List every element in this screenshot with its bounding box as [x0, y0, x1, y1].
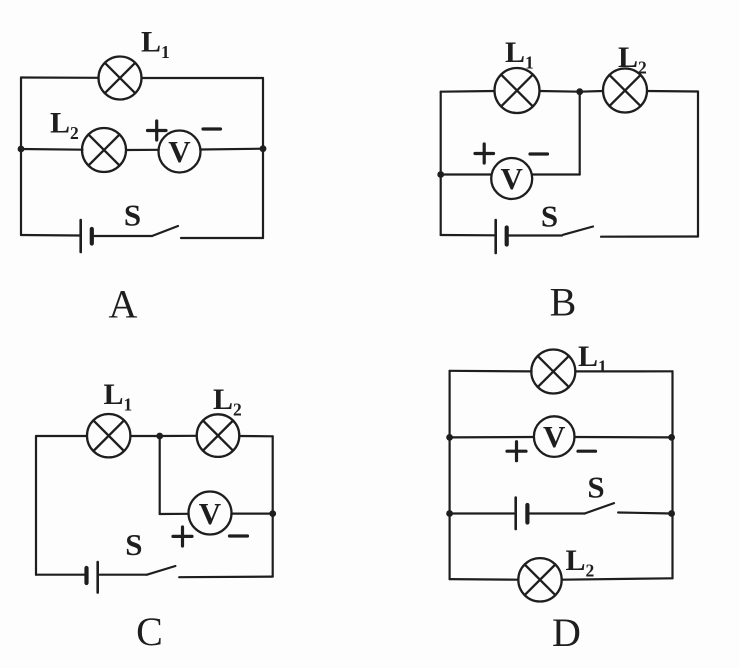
- svg-text:A: A: [109, 282, 138, 327]
- wire C between L1 and node: [130, 435, 159, 437]
- wire C bottom-left segment: [36, 574, 84, 576]
- node A-right junction dot: [260, 145, 267, 152]
- wire C battery-to-switch segment: [100, 574, 147, 576]
- svg-text:S: S: [587, 470, 604, 505]
- lamp L1 (circuit B): [495, 68, 540, 113]
- label plus (circuit C): [173, 527, 192, 546]
- label minus (circuit B): [530, 152, 548, 155]
- svg-text:V: V: [543, 419, 566, 454]
- voltmeter V (circuit D): [534, 416, 575, 457]
- wire A between L2 and voltmeter: [126, 149, 159, 151]
- node D battery-right dot: [668, 510, 675, 517]
- wire A bottom-left segment: [21, 234, 79, 237]
- node D voltmeter-right dot: [668, 434, 675, 441]
- svg-text:L2: L2: [618, 41, 647, 78]
- wire B battery-to-switch segment: [509, 234, 562, 236]
- wire B top-left segment: [441, 90, 495, 93]
- wire C top-right segment: [239, 435, 272, 437]
- wire C bottom-right segment: [179, 575, 273, 578]
- wire B top-right segment: [647, 90, 698, 93]
- wire C left vertical: [35, 436, 37, 575]
- label minus (circuit C): [230, 534, 248, 537]
- wire D top-right segment: [576, 370, 673, 372]
- svg-text:D: D: [552, 610, 581, 655]
- label minus (circuit D): [578, 450, 596, 453]
- wire B voltmeter branch vertical: [579, 92, 581, 175]
- wire C top-left segment: [36, 435, 87, 437]
- wire A top-left segment: [21, 76, 99, 79]
- voltmeter V (circuit C): [189, 492, 232, 535]
- wire A bottom-right segment: [181, 237, 263, 239]
- wire B between node and L2: [580, 90, 603, 93]
- svg-text:L1: L1: [505, 36, 534, 73]
- lamp L2 (circuit B): [603, 69, 647, 113]
- svg-text:V: V: [168, 134, 191, 169]
- svg-text:V: V: [501, 161, 524, 196]
- svg-text:S: S: [124, 198, 141, 233]
- wire A top-right segment: [142, 77, 264, 79]
- switch S blade (circuit D): [585, 503, 614, 513]
- battery (circuit C): long plate: [96, 562, 99, 593]
- lamp L1 (circuit A): [99, 57, 142, 100]
- node A-left junction dot: [18, 146, 25, 153]
- node C-right junction dot: [269, 510, 276, 517]
- label plus (circuit A): [148, 121, 167, 140]
- wire C between node and L2: [160, 435, 197, 437]
- node B-top junction dot: [576, 88, 583, 95]
- switch S blade (circuit B): [563, 227, 593, 235]
- wire D battery-to-switch segment: [530, 512, 585, 514]
- wire D bottom-right segment: [562, 578, 673, 579]
- lamp L1 (circuit D): [531, 350, 575, 394]
- svg-text:C: C: [136, 609, 163, 654]
- wire A battery-to-switch segment: [94, 235, 152, 237]
- svg-text:L2: L2: [566, 544, 595, 581]
- switch S blade (circuit C): [147, 566, 176, 575]
- wire C voltmeter-left segment: [160, 513, 189, 515]
- svg-text:L2: L2: [213, 383, 242, 420]
- wire A left vertical: [20, 78, 22, 236]
- battery (circuit A): short thick plate: [90, 229, 94, 244]
- wire D voltmeter-left segment: [450, 436, 534, 439]
- node D battery-left dot: [446, 510, 453, 517]
- svg-text:V: V: [199, 496, 222, 531]
- battery (circuit B): short thick plate: [505, 228, 509, 245]
- voltmeter V (circuit B): [491, 158, 532, 199]
- battery (circuit B): long plate: [494, 220, 497, 253]
- battery (circuit C): short thick plate: [84, 568, 88, 583]
- wire B bottom-left segment: [441, 234, 494, 237]
- wire B voltmeter-left segment: [441, 173, 492, 175]
- svg-text:L1: L1: [141, 26, 170, 63]
- wire D right vertical: [671, 371, 673, 578]
- lamp L2 (circuit A): [82, 128, 126, 172]
- wire C right vertical: [272, 436, 274, 576]
- lamp L2 (circuit C): [197, 414, 240, 457]
- node B-left junction dot: [437, 171, 444, 178]
- wire A right vertical: [262, 78, 264, 238]
- node D voltmeter-left dot: [446, 434, 453, 441]
- wire D switch-right segment: [618, 513, 672, 514]
- wire D battery-left segment: [450, 512, 514, 514]
- label plus (circuit D): [507, 442, 526, 461]
- svg-text:B: B: [550, 279, 577, 324]
- svg-text:S: S: [541, 199, 558, 234]
- node C junction dot (after L1): [156, 433, 163, 440]
- wire A middle-left segment: [21, 148, 83, 151]
- wire A middle-right segment: [201, 148, 264, 151]
- svg-text:L1: L1: [104, 378, 133, 415]
- battery (circuit D): long plate: [514, 498, 517, 529]
- battery (circuit D): short thick plate: [525, 505, 529, 523]
- label plus (circuit B): [475, 144, 494, 163]
- svg-text:S: S: [125, 527, 142, 562]
- battery (circuit A): long plate: [79, 220, 82, 252]
- wire B bottom-right segment: [601, 235, 698, 237]
- lamp L2 (circuit D): [518, 558, 561, 601]
- wire D bottom-left segment: [450, 578, 519, 581]
- wire B left vertical: [440, 92, 442, 235]
- wire B between L1 and node: [540, 90, 580, 93]
- svg-text:L2: L2: [50, 107, 79, 144]
- lamp L1 (circuit C): [87, 414, 130, 457]
- label minus (circuit A): [203, 127, 221, 130]
- wire C voltmeter branch vertical: [159, 436, 161, 514]
- wire D voltmeter-right segment: [575, 436, 672, 439]
- wire C voltmeter-right segment: [232, 512, 273, 514]
- wire B right vertical: [697, 92, 699, 237]
- voltmeter V (circuit A): [159, 131, 201, 173]
- wire B voltmeter-right segment: [532, 173, 580, 175]
- wire D left vertical: [449, 371, 451, 579]
- switch S blade (circuit A): [152, 226, 178, 236]
- wire D top-left segment: [450, 370, 532, 373]
